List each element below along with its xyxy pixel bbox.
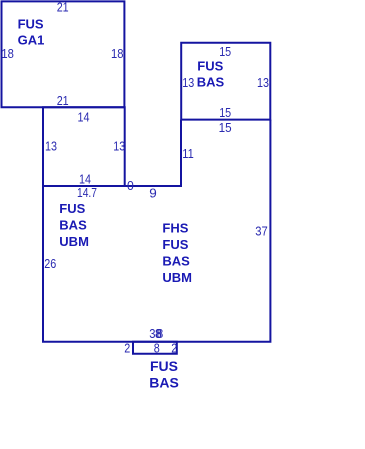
svg-text:0: 0 [127,178,134,193]
svg-text:BAS: BAS [197,75,225,90]
svg-text:UBM: UBM [162,270,192,285]
svg-text:2: 2 [124,341,130,356]
svg-text:BAS: BAS [149,374,179,390]
svg-text:8: 8 [157,326,164,341]
svg-text:14: 14 [79,171,91,186]
svg-text:2: 2 [171,341,177,356]
svg-text:37: 37 [255,224,267,239]
svg-text:GA1: GA1 [18,32,45,47]
svg-text:BAS: BAS [59,218,87,233]
svg-text:FUS: FUS [150,358,178,374]
svg-text:13: 13 [182,75,194,90]
svg-text:21: 21 [57,93,69,108]
svg-text:15: 15 [219,44,231,59]
svg-text:FUS: FUS [59,201,85,216]
svg-text:13: 13 [113,138,125,153]
svg-text:26: 26 [44,256,56,271]
svg-text:18: 18 [111,46,124,61]
svg-text:FUS: FUS [162,237,188,252]
svg-text:14: 14 [78,109,90,124]
svg-text:13: 13 [257,75,269,90]
svg-text:8: 8 [154,341,160,356]
svg-text:14.7: 14.7 [77,185,97,200]
svg-text:FUS: FUS [18,16,44,31]
svg-text:9: 9 [149,186,157,201]
svg-text:FUS: FUS [197,59,223,74]
svg-text:UBM: UBM [59,234,89,249]
svg-text:21: 21 [57,0,69,15]
svg-text:15: 15 [219,120,232,135]
svg-text:13: 13 [45,138,57,153]
svg-text:BAS: BAS [162,254,190,269]
svg-text:FHS: FHS [162,221,188,236]
svg-text:15: 15 [219,105,231,120]
svg-text:11: 11 [182,146,194,161]
svg-text:18: 18 [1,46,14,61]
